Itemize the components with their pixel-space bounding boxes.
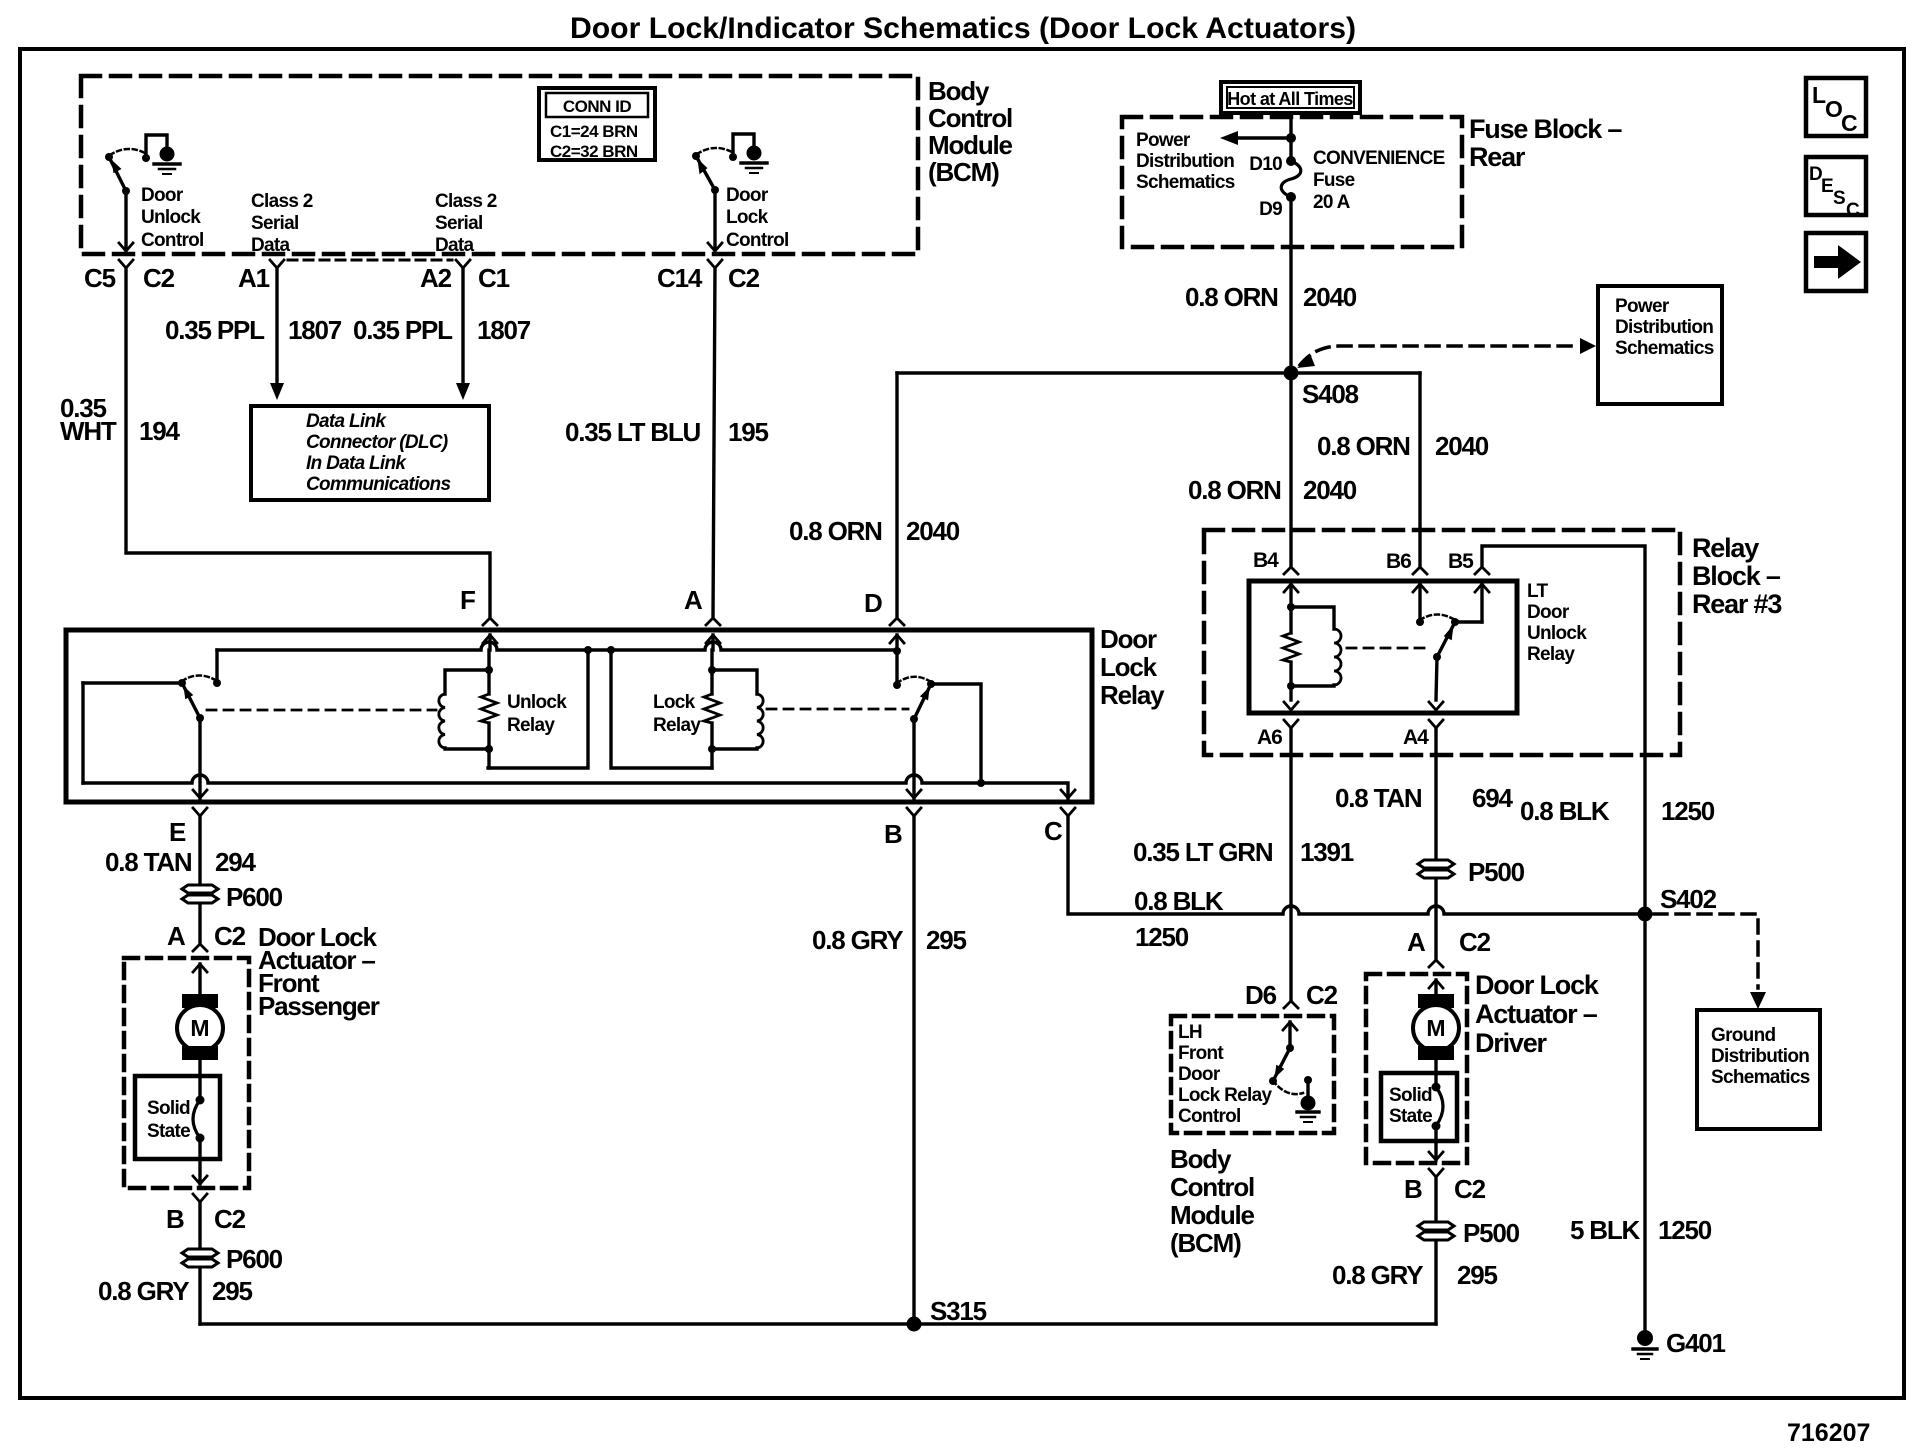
inline connector P600 (lower): [182, 1244, 283, 1274]
svg-text:Serial: Serial: [251, 213, 299, 234]
svg-text:D10: D10: [1249, 154, 1282, 175]
svg-text:1250: 1250: [1661, 796, 1715, 826]
svg-text:Relay: Relay: [1100, 680, 1165, 710]
wire S408 horizontal to D and B6: [897, 371, 1420, 374]
svg-text:0.8 GRY: 0.8 GRY: [98, 1276, 189, 1306]
label Class 2 Serial Data (right): [435, 191, 497, 256]
svg-text:Connector (DLC): Connector (DLC): [306, 432, 448, 453]
lock relay resistor: [704, 650, 720, 768]
relay switch: [1416, 615, 1482, 662]
inline connector P500 (lower): [1418, 1218, 1520, 1248]
wire label 0.35 LT GRN 1391: [1133, 837, 1354, 867]
svg-text:C1: C1: [478, 263, 510, 293]
wire C14 to A: [713, 268, 715, 618]
svg-text:Module: Module: [1170, 1200, 1255, 1230]
wire A2 to DLC: [461, 268, 464, 385]
svg-text:Driver: Driver: [1475, 1028, 1548, 1058]
Power Distribution Schematics reference box: [1598, 286, 1722, 404]
svg-text:Schematics: Schematics: [1711, 1067, 1810, 1088]
svg-text:Distribution: Distribution: [1136, 151, 1234, 172]
svg-text:Door: Door: [1527, 602, 1570, 623]
svg-text:CONN ID: CONN ID: [563, 97, 632, 116]
wire A6 down to D6: [1289, 728, 1292, 1001]
svg-text:Relay: Relay: [1527, 644, 1575, 665]
svg-text:LH: LH: [1178, 1022, 1202, 1043]
svg-text:20 A: 20 A: [1313, 192, 1351, 213]
wire C to S402 with hops: [1068, 816, 1645, 914]
node at D junction: [893, 647, 901, 655]
svg-text:2040: 2040: [1303, 475, 1357, 505]
svg-text:E: E: [1821, 176, 1834, 197]
wire from hot box down: [1289, 113, 1292, 161]
wire label 0.8 ORN 2040 (below fuse): [1185, 282, 1357, 312]
svg-text:B: B: [1404, 1174, 1422, 1204]
wire label 0.8 GRY 295 (passenger): [98, 1276, 253, 1306]
motor M (passenger): [177, 994, 223, 1060]
connector B / C2 (passenger): [193, 1194, 207, 1202]
svg-text:C2: C2: [214, 1204, 246, 1234]
wire pivot to E exit: [198, 718, 201, 798]
wire label 0.35 PPL 1807 (right): [353, 315, 531, 345]
wire label 0.8 GRY 295 (relay B): [812, 925, 967, 955]
solid state switch (driver): [1381, 1073, 1457, 1141]
internal bottom wire with hops: [83, 775, 1068, 798]
svg-text:B5: B5: [1448, 550, 1474, 573]
svg-text:1391: 1391: [1300, 837, 1354, 867]
BCM dashed enclosure box: [81, 76, 918, 254]
svg-text:B6: B6: [1386, 550, 1411, 573]
svg-text:A: A: [1407, 927, 1426, 957]
relay control dashed line: [1347, 647, 1430, 650]
svg-text:Fuse: Fuse: [1313, 170, 1355, 191]
wire A1 to DLC: [275, 268, 278, 385]
dashed arrow S408 to power distribution schematics: [1300, 346, 1578, 365]
svg-text:0.35 LT BLU: 0.35 LT BLU: [565, 417, 701, 447]
svg-text:B4: B4: [1253, 549, 1279, 572]
svg-text:C5: C5: [84, 263, 116, 293]
svg-text:Module: Module: [928, 130, 1013, 160]
svg-text:D9: D9: [1259, 199, 1282, 220]
Ground Distribution Schematics box: [1697, 1010, 1820, 1129]
pin D connector: [890, 618, 904, 625]
svg-text:C2: C2: [1459, 927, 1491, 957]
svg-text:Schematics: Schematics: [1136, 172, 1235, 193]
connector A / C2 (driver): [1429, 960, 1443, 967]
svg-text:C: C: [1846, 200, 1860, 221]
wire A4 pivot down: [1436, 657, 1437, 700]
svg-text:2040: 2040: [1435, 431, 1489, 461]
ground G401: [1633, 1328, 1726, 1359]
svg-text:0.35 LT GRN: 0.35 LT GRN: [1133, 837, 1273, 867]
svg-text:B: B: [166, 1204, 184, 1234]
svg-text:Door: Door: [1100, 624, 1157, 654]
svg-text:2040: 2040: [906, 516, 960, 546]
pin A6 connector: [1284, 702, 1298, 710]
svg-text:E: E: [169, 817, 186, 847]
svg-text:Door: Door: [1178, 1064, 1221, 1085]
left switch of relay: [83, 650, 221, 783]
svg-text:Relay: Relay: [653, 715, 701, 736]
wire label 0.8 TAN 294: [105, 847, 257, 877]
Hot at All Times box: [1221, 82, 1360, 113]
svg-text:Communications: Communications: [306, 474, 450, 495]
svg-text:0.8 ORN: 0.8 ORN: [1188, 475, 1281, 505]
wire C5 to F: [126, 268, 490, 618]
svg-text:Control: Control: [1178, 1106, 1241, 1127]
svg-text:Data Link: Data Link: [306, 411, 387, 432]
svg-text:0.8 ORN: 0.8 ORN: [789, 516, 882, 546]
svg-text:1807: 1807: [288, 315, 342, 345]
svg-text:295: 295: [212, 1276, 253, 1306]
svg-text:C: C: [1044, 816, 1063, 846]
wire label 0.8 ORN 2040 (D branch): [789, 516, 960, 546]
svg-text:0.35 PPL: 0.35 PPL: [353, 315, 453, 345]
svg-text:C14: C14: [657, 263, 703, 293]
svg-text:0.8 GRY: 0.8 GRY: [1332, 1260, 1423, 1290]
relay block dashed box: [1204, 530, 1680, 755]
svg-text:Control: Control: [141, 230, 204, 251]
wire contact to top wire: [215, 650, 218, 683]
connector B / C2 (driver): [1429, 1169, 1443, 1177]
DESC icon box: [1806, 157, 1866, 221]
svg-text:C: C: [1841, 110, 1858, 136]
wire to B6: [1418, 373, 1421, 567]
svg-text:Distribution: Distribution: [1615, 317, 1713, 338]
svg-text:Door Lock/Indicator Schematics: Door Lock/Indicator Schematics (Door Loc…: [570, 12, 1356, 45]
node S402: [1638, 907, 1653, 922]
svg-text:CONVENIENCE: CONVENIENCE: [1313, 148, 1445, 169]
svg-text:S315: S315: [930, 1296, 987, 1326]
pin B4 connector: [1284, 567, 1298, 574]
svg-text:A4: A4: [1403, 726, 1429, 749]
svg-text:P500: P500: [1468, 857, 1525, 887]
entry arrow (driver): [1429, 980, 1443, 988]
wire label 0.8 GRY 295 (driver): [1332, 1260, 1498, 1290]
label LH Front Door Lock Relay Control: [1178, 1022, 1272, 1127]
pin B6 connector: [1413, 567, 1427, 574]
svg-text:Hot at All Times: Hot at All Times: [1227, 89, 1353, 109]
wire bottom run to driver actuator: [200, 1322, 1436, 1325]
svg-text:Lock: Lock: [726, 207, 769, 228]
svg-text:1250: 1250: [1658, 1215, 1712, 1245]
switch arm: [182, 683, 200, 718]
door lock actuator front passenger dashed box: [124, 958, 249, 1188]
svg-text:Lock Relay: Lock Relay: [1178, 1085, 1272, 1106]
wire E to P600: [198, 816, 201, 944]
arrow to power distribution: [1234, 136, 1291, 139]
BCM label: [928, 76, 1013, 187]
svg-text:Door: Door: [726, 185, 769, 206]
svg-text:Control: Control: [726, 230, 789, 251]
connector A2/C1: [456, 260, 470, 268]
lock relay coil: [712, 670, 763, 749]
svg-text:0.35 PPL: 0.35 PPL: [165, 315, 265, 345]
label Lock Relay: [653, 692, 701, 736]
relay coil resistor B4: [1283, 603, 1299, 700]
svg-text:295: 295: [926, 925, 967, 955]
svg-text:Actuator –: Actuator –: [1475, 999, 1598, 1029]
switch: Door Unlock Control: [105, 135, 180, 195]
svg-text:0.8 TAN: 0.8 TAN: [105, 847, 192, 877]
wire pivot to B exit: [912, 719, 915, 798]
label Door Lock Relay: [1100, 624, 1165, 710]
node S408: [1284, 366, 1299, 381]
svg-text:L: L: [1812, 82, 1826, 108]
svg-text:0.8 ORN: 0.8 ORN: [1185, 282, 1278, 312]
wire B down to bottom run: [1434, 1177, 1437, 1324]
svg-text:M: M: [190, 1015, 209, 1041]
svg-text:S: S: [1833, 188, 1846, 209]
svg-text:0.8 ORN: 0.8 ORN: [1317, 431, 1410, 461]
svg-text:G401: G401: [1666, 1328, 1726, 1358]
relay coil B4: [1291, 607, 1341, 686]
lock relay control dashed line: [767, 708, 908, 711]
wire label 0.8 BLK / 1250 (ground run): [1134, 886, 1224, 952]
svg-text:195: 195: [728, 417, 769, 447]
svg-text:(BCM): (BCM): [1170, 1228, 1241, 1258]
svg-text:Unlock: Unlock: [507, 692, 567, 713]
door lock relay box: [66, 630, 1092, 802]
svg-text:M: M: [1426, 1015, 1445, 1041]
motor M (driver): [1413, 994, 1459, 1060]
svg-text:Block –: Block –: [1692, 561, 1781, 591]
dashed connector joint line A1-A2: [288, 259, 452, 262]
svg-text:716207: 716207: [1787, 1419, 1870, 1447]
wire left fixed contact: [83, 681, 182, 684]
wire B5 up and over to ground run: [1482, 546, 1645, 914]
svg-text:LT: LT: [1527, 581, 1548, 602]
wire label 5 BLK 1250: [1570, 1215, 1712, 1245]
lock relay enclosure: [611, 650, 712, 768]
wire to B exit (driver): [1434, 1126, 1437, 1160]
svg-text:Relay: Relay: [1692, 533, 1759, 563]
wire label 0.8 TAN 694: [1335, 783, 1514, 813]
unlock relay resistor: [481, 650, 497, 768]
svg-text:0.8 TAN: 0.8 TAN: [1335, 783, 1422, 813]
svg-text:(BCM): (BCM): [928, 157, 999, 187]
wire: lock control to C14 connector: [713, 190, 716, 250]
svg-text:5 BLK: 5 BLK: [1570, 1215, 1641, 1245]
svg-text:C1=24 BRN: C1=24 BRN: [550, 122, 638, 141]
wire fuse to S408: [1289, 197, 1292, 373]
svg-text:Data: Data: [435, 235, 475, 256]
wire label 0.8 ORN 2040 (B6 branch): [1317, 431, 1489, 461]
svg-text:0.8 BLK: 0.8 BLK: [1520, 796, 1610, 826]
pin B5 connector: [1475, 567, 1489, 574]
label Door Unlock Control: [141, 185, 204, 251]
connector A1: [270, 260, 284, 268]
svg-text:Class 2: Class 2: [251, 191, 313, 212]
svg-text:Distribution: Distribution: [1711, 1046, 1809, 1067]
pin B connector: [907, 790, 921, 798]
connector C14/C2: [708, 260, 722, 268]
svg-text:S402: S402: [1660, 884, 1717, 914]
wire relay B down to S315: [912, 816, 915, 1324]
svg-text:State: State: [147, 1121, 190, 1142]
svg-text:Schematics: Schematics: [1615, 338, 1714, 359]
relay control switch: [1269, 1022, 1319, 1122]
pin F connector: [483, 618, 497, 625]
wire motor to solid state (driver): [1434, 1060, 1437, 1087]
svg-text:A6: A6: [1257, 726, 1282, 749]
wire: unlock control to C5 connector: [124, 191, 127, 250]
unlock relay enclosure: [488, 650, 588, 768]
svg-text:1250: 1250: [1135, 922, 1189, 952]
svg-text:0.8 BLK: 0.8 BLK: [1134, 886, 1224, 916]
svg-text:Control: Control: [1170, 1172, 1254, 1202]
svg-text:Solid: Solid: [147, 1098, 190, 1119]
svg-text:Door Lock: Door Lock: [1475, 970, 1600, 1000]
wire label 0.35 PPL 1807 (left): [165, 315, 342, 345]
internal top wire: [217, 642, 897, 650]
LT door unlock relay solid box: [1249, 581, 1517, 713]
svg-text:P500: P500: [1463, 1218, 1520, 1248]
label LT Door Unlock Relay: [1527, 581, 1587, 665]
svg-text:Passenger: Passenger: [258, 991, 380, 1021]
connector D6 / C2: [1284, 1001, 1298, 1008]
wire label 0.35 WHT 194: [60, 393, 181, 446]
inline connector P600 (upper): [182, 882, 283, 912]
wire label 0.8 BLK 1250: [1520, 796, 1715, 826]
pin A connector: [706, 618, 720, 625]
unlock relay control dashed line: [207, 709, 436, 712]
label Door Lock Actuator - Driver: [1475, 970, 1600, 1058]
svg-text:S408: S408: [1302, 379, 1359, 409]
svg-text:A2: A2: [420, 263, 452, 293]
pin E connector: [193, 790, 207, 798]
svg-text:Power: Power: [1136, 130, 1191, 151]
dashed arrow S402 to ground distribution schematics: [1654, 914, 1758, 988]
svg-text:D6: D6: [1245, 980, 1277, 1010]
svg-text:B: B: [884, 819, 902, 849]
svg-text:C2: C2: [214, 921, 246, 951]
svg-text:Power: Power: [1615, 296, 1670, 317]
svg-text:2040: 2040: [1303, 282, 1357, 312]
label Unlock Relay: [507, 692, 567, 736]
svg-text:Solid: Solid: [1389, 1085, 1432, 1106]
svg-text:0.8 GRY: 0.8 GRY: [812, 925, 903, 955]
svg-text:Unlock: Unlock: [141, 207, 201, 228]
svg-text:Door: Door: [141, 185, 184, 206]
wire left loop down: [81, 683, 84, 783]
svg-text:C2: C2: [1306, 980, 1338, 1010]
svg-text:Unlock: Unlock: [1527, 623, 1587, 644]
svg-text:694: 694: [1472, 783, 1514, 813]
entry arrow: [193, 964, 207, 972]
label Relay Block - Rear #3: [1692, 533, 1782, 619]
svg-text:C2: C2: [143, 263, 175, 293]
LH front door lock relay control dashed box: [1171, 1016, 1334, 1133]
svg-text:Body: Body: [928, 76, 990, 106]
wire to B exit: [198, 1138, 201, 1184]
svg-text:Rear: Rear: [1469, 142, 1526, 172]
svg-text:In Data Link: In Data Link: [306, 453, 407, 474]
wire S402 to G401: [1643, 914, 1646, 1332]
svg-text:P600: P600: [226, 882, 283, 912]
label Body Control Module (BCM) lower: [1170, 1144, 1255, 1258]
node S315: [907, 1317, 922, 1332]
svg-text:Fuse Block –: Fuse Block –: [1469, 114, 1622, 144]
svg-text:Data: Data: [251, 235, 291, 256]
wire motor to solid state: [198, 1060, 201, 1100]
connector A / C2 (passenger): [193, 944, 207, 951]
wire S408 to B4: [1289, 373, 1292, 567]
svg-text:294: 294: [215, 847, 257, 877]
svg-text:Rear #3: Rear #3: [1692, 589, 1782, 619]
svg-text:State: State: [1389, 1106, 1432, 1127]
svg-text:A1: A1: [238, 263, 270, 293]
LOC icon box: [1806, 78, 1866, 136]
wire label 0.35 LT BLU 195: [565, 417, 769, 447]
switch: Door Lock Control: [692, 134, 767, 194]
pin C connector: [1061, 790, 1075, 798]
CONN ID table: [539, 88, 655, 161]
fuse block dashed box: [1122, 117, 1462, 247]
door lock actuator driver dashed box: [1366, 974, 1467, 1163]
svg-text:Control: Control: [928, 103, 1012, 133]
svg-text:Lock: Lock: [1100, 652, 1158, 682]
svg-text:Serial: Serial: [435, 213, 483, 234]
svg-text:C2: C2: [1454, 1174, 1486, 1204]
label Fuse Block - Rear: [1469, 114, 1622, 172]
forward arrow icon box: [1806, 233, 1866, 291]
svg-text:P600: P600: [226, 1244, 283, 1274]
svg-text:Lock: Lock: [653, 692, 696, 713]
fuse CONVENIENCE 20A: [1286, 156, 1296, 166]
svg-text:C2=32 BRN: C2=32 BRN: [550, 142, 638, 161]
svg-text:A: A: [167, 921, 186, 951]
wire A4 down to driver actuator: [1434, 728, 1437, 960]
unlock relay coil: [439, 670, 489, 749]
svg-text:WHT: WHT: [60, 416, 117, 446]
label Door Lock Control: [726, 185, 789, 251]
pin A4 connector: [1429, 702, 1443, 710]
svg-text:1807: 1807: [477, 315, 531, 345]
svg-text:295: 295: [1457, 1260, 1498, 1290]
svg-text:D: D: [864, 588, 882, 618]
svg-text:C2: C2: [728, 263, 760, 293]
connector C5/C2 at BCM: [119, 260, 133, 268]
inline connector P500 (upper): [1418, 857, 1525, 887]
wire label 0.8 ORN 2040 (B4 branch): [1188, 475, 1357, 505]
svg-text:Class 2: Class 2: [435, 191, 497, 212]
svg-text:Relay: Relay: [507, 715, 555, 736]
wire B to P600 lower: [198, 1202, 201, 1324]
label Class 2 Serial Data (left): [251, 191, 313, 256]
svg-text:194: 194: [139, 416, 181, 446]
right switch of relay: [893, 651, 985, 787]
svg-text:A: A: [684, 585, 703, 615]
svg-text:Body: Body: [1170, 1144, 1232, 1174]
svg-text:Ground: Ground: [1711, 1025, 1775, 1046]
DLC box: [251, 406, 489, 500]
label Door Lock Actuator - Front Passenger: [258, 922, 380, 1021]
solid state switch (passenger): [135, 1076, 220, 1159]
label Power Distribution Schematics (fuse block): [1136, 130, 1235, 193]
svg-text:Front: Front: [1178, 1043, 1224, 1064]
svg-text:F: F: [460, 585, 475, 615]
wire S408 to D: [895, 373, 898, 618]
